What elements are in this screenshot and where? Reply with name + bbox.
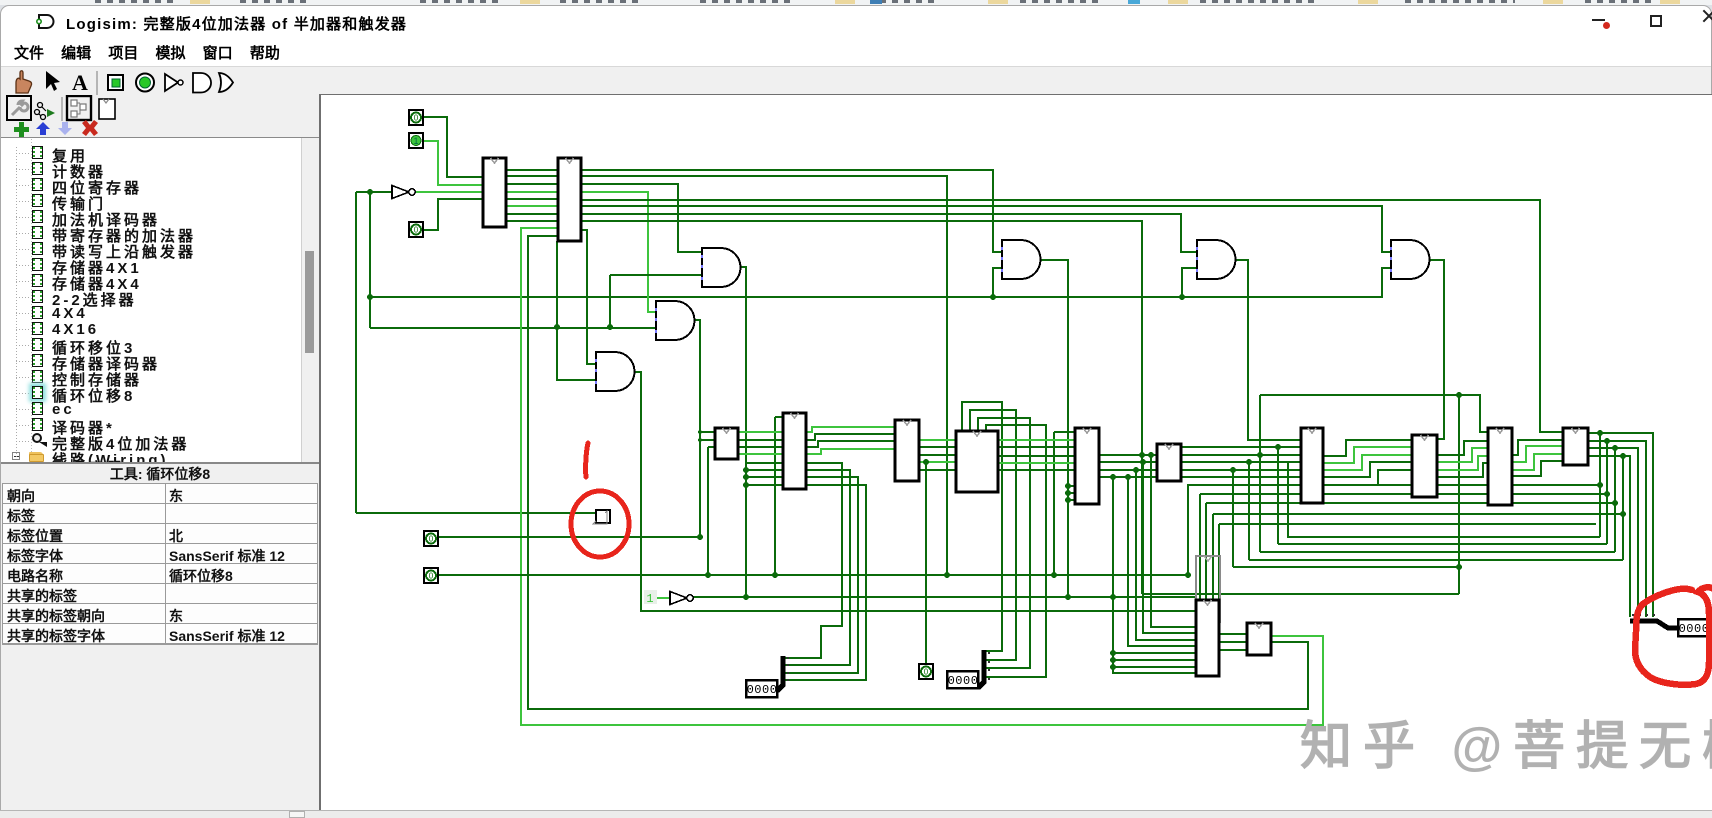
subcircuit M3 xyxy=(956,431,998,492)
wire junction (1113,477) xyxy=(1110,474,1116,480)
subcircuit U10 half-adder xyxy=(483,158,506,227)
wire x1249 down xyxy=(1248,462,1250,560)
wire row y206 to U4 in1 xyxy=(581,206,1391,252)
red annotation line xyxy=(586,443,588,477)
wire junction (1151,455) xyxy=(1148,452,1154,458)
subcircuit SQ1 shift register xyxy=(593,510,610,524)
wire junction (1233,470) xyxy=(1230,467,1236,473)
wire junction (708,575) xyxy=(705,572,711,578)
input pin A2 xyxy=(409,222,423,237)
wire M5-M6 row455 xyxy=(1181,454,1301,456)
subcircuit M8 xyxy=(1488,428,1512,505)
wire U2 out to M4 row486 xyxy=(1068,485,1075,487)
wire bright feedback loop xyxy=(521,228,1323,725)
window maximize button xyxy=(1650,15,1662,27)
wire x1278 down xyxy=(1277,447,1279,544)
wire M0-M1 row447 xyxy=(738,446,783,448)
wire junction (1128,477) xyxy=(1125,474,1131,480)
subcircuit BoxJ xyxy=(1247,623,1271,655)
wire junction (1113,597) xyxy=(1110,594,1116,600)
wire junction (1600,485) xyxy=(1597,482,1603,488)
wire junction (746,597) xyxy=(743,594,749,600)
wire U4 out to M7 xyxy=(1428,260,1444,439)
wire junction (1068,493) xyxy=(1065,490,1071,496)
subcircuit M2 xyxy=(895,420,919,481)
wire row y494 xyxy=(1200,493,1607,495)
explorer tree background xyxy=(1,138,301,464)
wire pin B1 row y575 xyxy=(438,485,1600,575)
subcircuit M7 xyxy=(1412,435,1437,497)
wire BoxI top pin3 xyxy=(1212,514,1214,600)
svg-text:0000: 0000 xyxy=(747,683,778,697)
splitter S1 xyxy=(777,656,789,691)
wire U10-U11 row y199 xyxy=(506,198,558,200)
wire junction (1607,494) xyxy=(1604,491,1610,497)
svg-text:1: 1 xyxy=(646,592,653,606)
canvas top border xyxy=(321,94,1712,95)
wire junction (700,537) xyxy=(697,534,703,540)
wire junction (926,462) xyxy=(923,459,929,465)
inverter G2 xyxy=(670,592,693,605)
left toolbar bottom border xyxy=(1,137,319,138)
AND gate U1 xyxy=(701,248,741,287)
wire row y395 xyxy=(1260,395,1488,432)
wire row y503 xyxy=(1206,502,1615,504)
toolbar separator xyxy=(96,71,98,95)
separator xyxy=(61,97,63,121)
display D1 xyxy=(746,680,777,697)
wire junction (1143,462) xyxy=(1140,459,1146,465)
wire U1 in2 xyxy=(610,274,702,276)
wire row y544 xyxy=(1278,543,1607,545)
wire M1 to splitter S1 b1 xyxy=(783,470,850,665)
svg-text:A: A xyxy=(72,70,88,95)
title text xyxy=(66,13,407,34)
wire junction (1142,455) xyxy=(1139,452,1145,458)
wire junction (1459,395) xyxy=(1456,392,1462,398)
wire M2-M3 row470 xyxy=(919,469,956,471)
svg-text:0000: 0000 xyxy=(1679,622,1710,636)
wire node N2 down xyxy=(369,192,371,328)
wire junction (700,432) xyxy=(698,430,702,434)
AND gate U2 xyxy=(1001,240,1041,279)
attribute table xyxy=(1,462,319,810)
wire x1128 to BoxI xyxy=(1128,477,1196,646)
wire BoxI top pin1 xyxy=(1199,494,1201,600)
wire M3 top b2 xyxy=(978,418,1030,668)
constant 1 xyxy=(644,590,657,606)
wire x708 stub xyxy=(708,446,715,448)
wire M6-M7 row e xyxy=(1323,470,1412,485)
subcircuit M4 xyxy=(1075,428,1099,504)
subcircuit M0 xyxy=(715,428,738,459)
subcircuit BoxI decoder xyxy=(1196,600,1219,676)
window minimize button xyxy=(1592,19,1605,21)
title bar icon xyxy=(36,12,60,30)
wire x708 to M0 in3 xyxy=(707,447,709,575)
wire M1-M2 row3 xyxy=(806,441,895,447)
wire x775 stub xyxy=(775,416,783,418)
wire M8-M9 row d xyxy=(1512,461,1563,476)
add plus green xyxy=(14,122,29,137)
wire M0-M1 row454 xyxy=(738,453,783,455)
wire pin A0 to U10 xyxy=(423,117,483,177)
wire M2-M3 row462 xyxy=(919,461,956,463)
tree guide line xyxy=(1,138,301,464)
wire U2 out xyxy=(1039,260,1068,597)
wire M4-M5 row455 xyxy=(1099,454,1157,456)
wire x1233 down xyxy=(1232,470,1234,567)
display D2 xyxy=(947,671,978,688)
wire row y537 right segment xyxy=(1288,462,1600,537)
wire M1 to splitter S1 b2 xyxy=(783,477,858,673)
svg-text:0: 0 xyxy=(414,114,419,123)
wire node N1 to NOT G1 xyxy=(356,191,392,193)
wire M3-M4 x1054 vertical xyxy=(1053,432,1055,575)
wire junction (1623,456) xyxy=(1620,453,1626,459)
wire junction (557,327) xyxy=(554,324,560,330)
wire pin B0 row y537 xyxy=(438,536,700,538)
wire M1 to splitter S1 b3 xyxy=(783,485,866,680)
wire M3 top b0 xyxy=(962,402,1002,651)
wire row y184 to U1 in1 xyxy=(581,184,702,252)
wire M3 top b1 xyxy=(970,410,1016,660)
wire row y594 xyxy=(1142,593,1459,595)
wire U6 out xyxy=(694,320,700,537)
wire M3-M4 row463 xyxy=(998,462,1075,464)
wire M7-M8 row c xyxy=(1437,456,1488,470)
wire x1113 stub 660 xyxy=(1113,659,1196,661)
AND gate U3 xyxy=(1196,240,1236,279)
chip icon xyxy=(99,99,115,119)
wire M3-M4 row432 xyxy=(1054,431,1075,433)
svg-text:0: 0 xyxy=(414,226,419,235)
subcircuit M5 xyxy=(1157,444,1181,481)
wire U3 in2 xyxy=(1182,268,1197,297)
wire M4-M5 row462 xyxy=(1099,461,1157,463)
wire M1-M2 row4 xyxy=(806,449,895,454)
wire junction (1113,667) xyxy=(1110,664,1116,670)
wire junction (1068,500) xyxy=(1065,497,1071,503)
wire junction (610,327) xyxy=(607,324,613,330)
wire M0-M1 row432 xyxy=(738,431,783,433)
wire junction (1113,653) xyxy=(1110,650,1116,656)
splitter S2 xyxy=(978,650,990,688)
wire M2-M3 row440 xyxy=(919,439,956,441)
input pin B1 xyxy=(424,568,438,583)
subcircuit U11 flipflop bank xyxy=(558,158,581,241)
wire junction (1113,660) xyxy=(1110,657,1116,663)
wire junction (1068,486) xyxy=(1065,483,1071,489)
svg-text:1: 1 xyxy=(413,136,418,146)
wire junction (1260,455) xyxy=(1257,452,1263,458)
wire bus row y327 xyxy=(370,327,656,329)
wire M6-M7 row b xyxy=(1323,447,1412,463)
text tool icon xyxy=(72,70,88,95)
left panel right border xyxy=(319,94,321,810)
wire BoxI top pin4 xyxy=(1218,524,1220,600)
AND gate U5 xyxy=(595,352,634,391)
splitter S4 xyxy=(1630,614,1678,628)
subcircuit M9 xyxy=(1563,428,1588,465)
wire row y221 to x1142 xyxy=(581,221,1142,594)
select tool arrow icon xyxy=(46,71,60,91)
wire junction (1054,575) xyxy=(1051,572,1057,578)
wire U2 out to M4 row500 xyxy=(1068,499,1075,501)
wire junction (1188,575) xyxy=(1185,572,1191,578)
wire junction (1459,567) xyxy=(1456,564,1462,570)
wire row y192 to U6 in1 xyxy=(581,192,656,312)
wire U1 out to M1 row485 xyxy=(746,484,783,486)
wire junction (1249,462) xyxy=(1246,459,1252,465)
wire U10-U11 row y170 xyxy=(506,169,558,171)
wire BoxI-BoxJ row642 xyxy=(1219,641,1247,643)
wire row y176 long vertical x947 xyxy=(581,176,947,575)
red annotation blob xyxy=(1635,587,1712,684)
display D4 xyxy=(1678,619,1709,636)
wire x1615 down xyxy=(1614,448,1616,552)
wire const to G2 xyxy=(656,597,670,599)
wire to shifter SQ1 xyxy=(356,512,595,514)
wire junction (947,575) xyxy=(944,572,950,578)
wire M9 out448 xyxy=(1588,448,1638,617)
wire node N1 down xyxy=(355,192,357,513)
menu bar xyxy=(14,42,280,63)
wire pin A2 to U10 xyxy=(423,199,483,230)
wire x1260 up-down xyxy=(1259,395,1261,552)
wire x775 to M1 xyxy=(774,417,776,575)
wire row y214 to U3 in1 xyxy=(581,214,1197,252)
wire M3-M4 row470 xyxy=(998,469,1075,471)
wire U10-U11 row y221 xyxy=(506,220,558,222)
wire M6-M7 row d xyxy=(1323,462,1412,477)
wire M5-M6 row477 xyxy=(1181,476,1301,478)
wire M3-M4 row447 xyxy=(998,446,1075,448)
wire M1-M2 row1 xyxy=(806,427,895,432)
subcircuit M6 xyxy=(1301,428,1323,503)
wire M5-M6 row470 xyxy=(1181,469,1301,471)
wire x1113 to BoxI xyxy=(1113,477,1196,673)
wire junction (1615,503) xyxy=(1612,500,1618,506)
wire M9 out441 xyxy=(1588,441,1646,617)
wire U10-U11 row y206 xyxy=(506,205,558,207)
wire M7-M8 row b xyxy=(1437,448,1488,462)
bottom window strip xyxy=(0,810,1712,818)
wire U6 out stub M0 in2 xyxy=(700,439,715,441)
wire x1113 stub 667 xyxy=(1113,666,1196,668)
wire G1 out to U10 xyxy=(415,191,483,193)
subcircuit M1 register xyxy=(783,413,806,489)
svg-text:0000: 0000 xyxy=(948,674,979,688)
wire row y524 xyxy=(1219,523,1596,525)
input pin tool icon xyxy=(108,75,123,90)
wire BoxI-BoxJ row650 xyxy=(1219,649,1247,651)
canvas white xyxy=(322,95,1712,810)
wire bus row y297 xyxy=(370,268,1391,297)
AND gate tool icon xyxy=(193,73,211,93)
wire U10-U11 row y214 xyxy=(506,213,558,215)
wire M4-M5 row470 xyxy=(1099,469,1157,471)
wire junction (746,597) xyxy=(743,594,749,600)
wire M3-M4 row456 xyxy=(998,455,1075,457)
wire row y567 xyxy=(1233,566,1459,568)
wire U3 out to M6 xyxy=(1234,260,1301,440)
input pin B0 xyxy=(424,531,438,546)
project view icon selected xyxy=(67,96,91,120)
wire dark feedback loop xyxy=(528,236,1308,709)
wire U1 out xyxy=(739,267,746,597)
wire M8-M9 row a xyxy=(1512,440,1563,455)
tree scrollbar thumb xyxy=(305,251,314,353)
wire M7-M8 row d xyxy=(1437,463,1488,477)
wire M6-M7 row c xyxy=(1323,455,1412,470)
wire junction (993,297) xyxy=(990,294,996,300)
wire M1-M2 row2 xyxy=(806,434,895,440)
wire M6-M7 row a xyxy=(1323,440,1412,456)
wire M2-M3 row455 xyxy=(919,454,956,456)
input pin C0 xyxy=(919,664,933,679)
wire U10-U11 row y176 xyxy=(506,175,558,177)
up arrow blue xyxy=(36,122,50,135)
wire U2 in2 xyxy=(993,268,1002,297)
wire junction (1600,433) xyxy=(1597,430,1603,436)
hierarchy icon xyxy=(35,103,56,120)
inverter G1 xyxy=(392,186,415,199)
wire junction (1623,514) xyxy=(1620,511,1626,517)
wire junction (370,192) xyxy=(367,189,373,195)
wire BoxI top pin2 xyxy=(1205,503,1207,600)
AND gate U6 xyxy=(655,301,695,340)
wire junction (746,477) xyxy=(743,474,749,480)
wire U5 out xyxy=(634,372,1196,611)
wire row y200 to M9 xyxy=(581,200,1563,432)
wrench tool selected xyxy=(7,96,31,120)
wire junction (1182,297) xyxy=(1179,294,1185,300)
svg-text:0: 0 xyxy=(429,535,434,544)
wire U1 out to M1 row470 xyxy=(746,469,783,471)
wire junction (1615,448) xyxy=(1612,445,1618,451)
wire junction (1278,447) xyxy=(1275,444,1281,450)
wire U2 out to M4 row493 xyxy=(1068,492,1075,494)
toolbar band xyxy=(1,66,1711,94)
wire M3 top b3 xyxy=(984,425,1046,677)
wire row y552 xyxy=(1260,551,1615,553)
wire M3-M4 row440 xyxy=(998,439,1075,441)
wire row y170 to U2 in1 xyxy=(581,170,1002,252)
OR gate tool icon xyxy=(219,73,233,92)
wire junction (775,575) xyxy=(772,572,778,578)
AND gate U4 xyxy=(1390,240,1430,279)
partial row splitter xyxy=(55,596,57,598)
wire U1 out to M1 row477 xyxy=(746,476,783,478)
left panel background xyxy=(1,94,321,810)
wire x1143 to BoxI xyxy=(1143,462,1196,633)
wire U10-U11 row y184 xyxy=(506,183,558,185)
poke tool hand icon xyxy=(16,71,32,93)
wire junction (746,470) xyxy=(743,467,749,473)
wire x1623 down xyxy=(1622,456,1624,560)
wire M2-M3 row447 xyxy=(919,446,956,448)
wire x1607 down xyxy=(1606,441,1608,544)
NOT gate tool icon xyxy=(165,74,183,91)
svg-text:0: 0 xyxy=(924,668,929,677)
wire M1 to splitter S1 b0 xyxy=(783,463,842,658)
wire M7-M8 row a xyxy=(1437,441,1488,455)
recording red dot xyxy=(1603,22,1610,29)
wire row y560 xyxy=(1249,559,1623,561)
svg-text:0: 0 xyxy=(429,572,434,581)
tree scrollbar track xyxy=(301,138,319,464)
wire junction (1068,597) xyxy=(1065,594,1071,600)
bookmarks bar sliver xyxy=(0,0,1712,5)
input pin A1 xyxy=(409,133,423,148)
wire x1459 down xyxy=(1458,395,1460,594)
wire x1600 down xyxy=(1599,433,1601,537)
wire G2 out row y597 xyxy=(693,596,1196,598)
red annotation circle xyxy=(571,491,629,557)
wire M9 out433 xyxy=(1588,433,1653,617)
wire U10-U11 row y192 xyxy=(506,191,558,193)
wire U1 out to M1 row463 xyxy=(746,462,783,464)
wire junction (746,485) xyxy=(743,482,749,488)
wire pin A1 to U10 xyxy=(423,141,483,185)
wire junction (370,297) xyxy=(367,294,373,300)
svg-text:知乎 @菩提无树: 知乎 @菩提无树 xyxy=(1300,718,1712,776)
wire junction (1607,441) xyxy=(1604,438,1610,444)
watermark zhihu xyxy=(1300,718,1712,776)
wire x1136 to BoxI xyxy=(1136,470,1196,640)
window close button xyxy=(1703,10,1712,23)
wire x1151 to BoxI xyxy=(1151,455,1196,627)
wire junction (1068,597) xyxy=(1065,594,1071,600)
wire M5-M6 row447 xyxy=(1181,446,1301,448)
wire M8-M9 row c xyxy=(1512,454,1563,470)
wire M0-M1 row440 xyxy=(738,439,783,441)
wire pin C0 up xyxy=(925,462,927,664)
wire M9 out456 xyxy=(1588,456,1630,617)
wire row y514 xyxy=(1213,513,1623,515)
wire U6 out stub M0 in1 xyxy=(700,431,715,433)
wire M8-M9 row b xyxy=(1512,446,1563,462)
wire M5-M6 row462 xyxy=(1181,461,1301,463)
attribute table outer border xyxy=(2,483,318,645)
input pin A0 xyxy=(409,110,423,125)
wire x610 vertical xyxy=(609,275,611,328)
wire U11 pin230 to U5 in1 xyxy=(581,230,596,364)
wire U11 pin241 to U5 in2 xyxy=(557,241,596,380)
delete x red xyxy=(82,120,98,136)
down arrow lavender xyxy=(58,122,72,135)
ghost selection box xyxy=(1196,556,1220,622)
wire junction (700,440) xyxy=(698,438,702,442)
wire BoxI-BoxJ row634 xyxy=(1219,633,1247,635)
wire junction (1136,470) xyxy=(1133,467,1139,473)
wire M4-M5 row477 xyxy=(1099,476,1157,478)
wire x1113 stub 653 xyxy=(1113,652,1196,654)
output pin tool icon xyxy=(136,74,154,92)
